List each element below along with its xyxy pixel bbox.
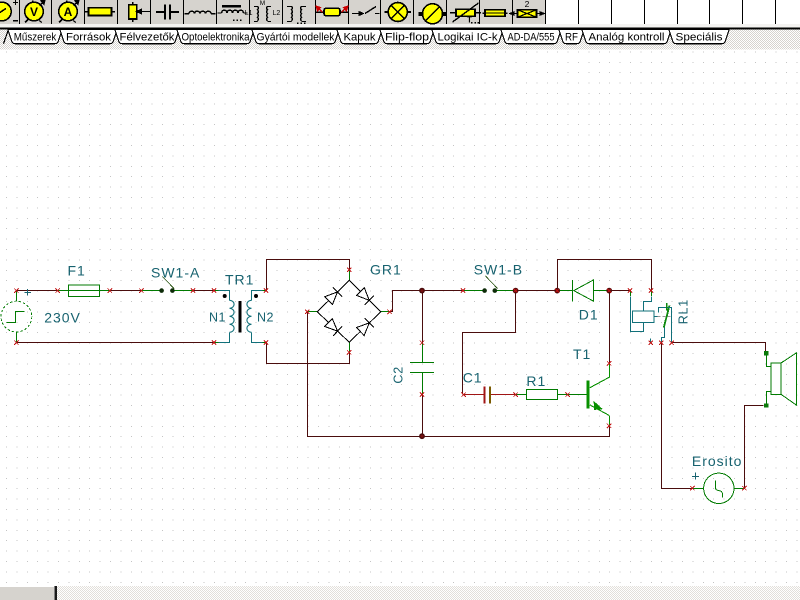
svg-text:230V: 230V	[44, 310, 81, 326]
svg-text:GR1: GR1	[370, 262, 402, 278]
svg-text:A: A	[64, 5, 73, 19]
svg-text:Kapuk: Kapuk	[344, 32, 376, 44]
svg-text:L1: L1	[245, 10, 253, 17]
svg-text:Félvezetők: Félvezetők	[120, 32, 176, 44]
svg-text:Logikai IC-k: Logikai IC-k	[438, 32, 499, 44]
svg-text:RF: RF	[565, 32, 578, 44]
svg-text:Műszerek: Műszerek	[14, 32, 57, 44]
svg-text:Források: Források	[66, 32, 112, 44]
svg-text:TR1: TR1	[225, 272, 254, 288]
svg-text:D1: D1	[579, 307, 599, 323]
svg-text:Erosito: Erosito	[692, 453, 743, 469]
svg-text:C2: C2	[392, 366, 406, 384]
svg-text:F1: F1	[68, 263, 86, 279]
svg-text:R1: R1	[526, 373, 546, 389]
svg-text:C1: C1	[463, 370, 483, 386]
svg-text:Optoelektronika: Optoelektronika	[182, 32, 251, 44]
svg-text:M: M	[260, 0, 265, 7]
svg-text:N2: N2	[257, 311, 274, 325]
svg-text:L2: L2	[273, 10, 281, 17]
svg-text:N1: N1	[209, 311, 226, 325]
svg-text:Speciális: Speciális	[676, 32, 724, 44]
svg-text:RL1: RL1	[677, 299, 691, 324]
svg-text:Gyártói modellek: Gyártói modellek	[257, 32, 335, 44]
svg-text:Flip-flop: Flip-flop	[385, 32, 429, 44]
svg-text:SW1-A: SW1-A	[151, 264, 200, 280]
svg-text:V: V	[30, 5, 38, 19]
svg-text:T1: T1	[573, 346, 591, 362]
svg-text:2: 2	[525, 0, 530, 9]
svg-text:SW1-B: SW1-B	[474, 261, 523, 277]
svg-text:Analóg kontroll: Analóg kontroll	[589, 32, 665, 44]
svg-text:AD-DA/555: AD-DA/555	[508, 32, 555, 44]
